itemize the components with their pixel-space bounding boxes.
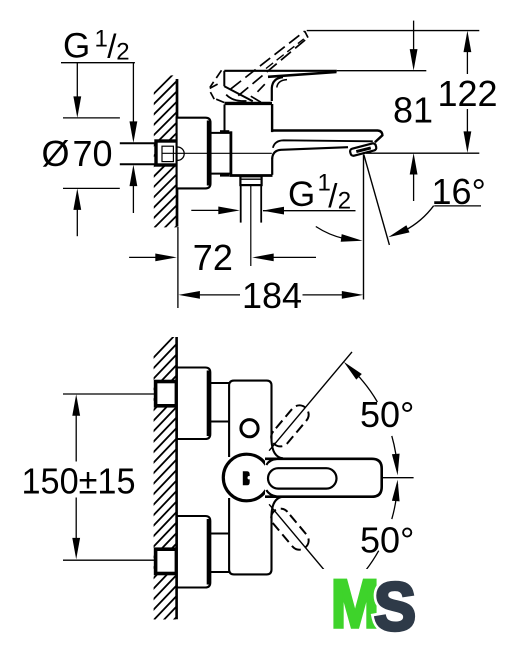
lever rotated 50 deg down (dashed) [267,505,312,554]
svg-text:G: G [288,175,315,214]
faucet body (plan view) [229,381,283,575]
svg-text:50°: 50° [360,394,414,435]
MS logo [321,566,424,645]
connection nut and pipe (side view) [240,176,261,266]
lower stem (plan view) [210,534,229,573]
faucet body (side view) [162,103,273,175]
lever handle (side view, horizontal) [224,71,336,102]
upper stem (plan view) [210,383,229,422]
50 deg direction lines [269,352,414,603]
svg-text:50°: 50° [360,520,414,561]
dimension Ø 70 [42,63,120,237]
svg-text:Ø 70: Ø 70 [42,133,113,174]
dimension 81 [393,21,433,201]
upper union square (plan view) [156,382,177,406]
svg-text:81: 81 [393,90,433,131]
handle ball joint (plan view) [223,454,270,501]
connecting neck (side view) [211,131,231,175]
leader arrows from G 1/2 label to union pipe [130,63,138,213]
svg-text:G: G [63,27,90,66]
spout (side view) [272,131,382,159]
arrow at pipe left side [191,207,240,215]
label G 1/2 (at pipe) with leader [263,170,356,215]
dimension 50 deg lower [344,480,415,594]
dimension 16 degrees [316,155,486,245]
svg-text:S: S [374,569,416,640]
dimension 184 [178,275,363,316]
svg-text:/: / [328,177,338,214]
lever (plan view, horizontal) [265,459,382,497]
dimension 72 [129,227,316,308]
svg-text:184: 184 [242,275,302,316]
small circle detail (plan view) [241,420,258,437]
svg-text:1: 1 [95,26,108,53]
lower flange (plan view) [177,516,210,588]
label G 1/2 (top left) [61,26,135,66]
lever rotated 50 deg up (dashed) [267,402,312,451]
dimension 150 plus/minus 15 [22,394,157,560]
G 1/2 wall union (side view) [120,141,178,165]
lower union square (plan view) [156,549,177,573]
upper flange (plan view) [177,368,210,440]
svg-text:72: 72 [193,237,233,278]
lever handle raised position (dashed) [210,31,308,102]
svg-text:122: 122 [438,73,498,114]
wall (side view) with hatching [148,70,178,275]
svg-text:M: M [331,566,379,640]
wall (plan view) with hatching [148,333,178,645]
escutcheon flange (side view) [177,118,211,189]
dimension 122 [438,31,498,153]
dimension 50 deg upper [344,362,415,476]
svg-text:150±15: 150±15 [22,461,136,502]
svg-text:2: 2 [116,39,129,66]
extension lines at spout tip [307,31,480,300]
